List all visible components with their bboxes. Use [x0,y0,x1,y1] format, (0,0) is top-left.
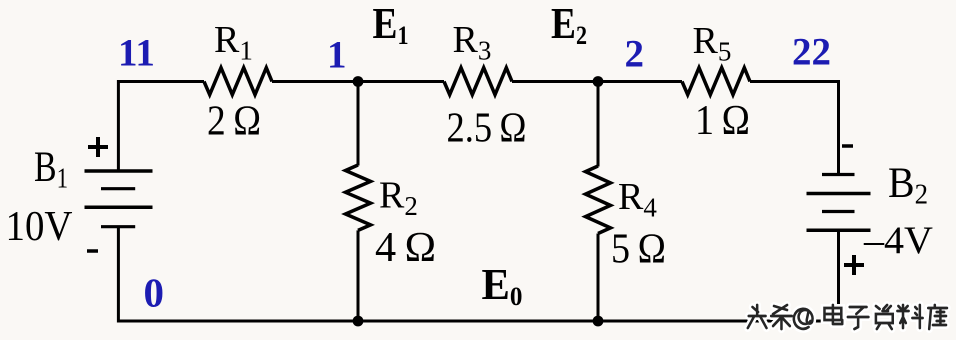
wire R5 to B2 minus terminal [750,82,839,176]
svg-text:4 Ω: 4 Ω [375,225,436,271]
resistor R2 zigzag [346,165,371,230]
wire R2 to node 0 rail [357,230,360,321]
battery B1 plates [85,171,153,227]
wire node 2 down to R4 [597,82,600,167]
wire R4 to node 0 rail [597,234,600,322]
plus sign B1 [88,137,108,157]
svg-text:1: 1 [327,34,347,77]
wire R1 to node 1 [272,80,358,83]
node 1 junction dot [353,76,364,87]
svg-text:2 Ω: 2 Ω [207,99,261,145]
minus sign B1 [87,249,98,253]
node 0 junction dot under R4 [593,316,604,327]
svg-text:2.5 Ω: 2.5 Ω [447,106,527,152]
wire B2 plus terminal down to bottom rail [837,230,840,321]
svg-text:10V: 10V [6,204,73,250]
battery B2 plates [807,175,871,231]
resistor R4 zigzag [586,166,611,234]
node 0 junction dot under R2 [353,316,364,327]
resistor R5 zigzag [682,68,750,95]
wire B1 plus terminal up to top-left corner and right to R1 [118,82,204,172]
resistor R1 zigzag [204,68,272,95]
wire node 2 to R5 [598,80,682,83]
svg-text:2: 2 [625,33,645,76]
wire R3 to node 2 [512,80,598,83]
plus sign B2 [844,255,864,275]
wire node 1 to R3 [358,80,444,83]
svg-text:–4V: –4V [863,218,933,262]
svg-text:11: 11 [118,32,155,75]
wire bottom rail R4 to B2 [598,320,839,323]
wire node 1 down to R2 [357,82,360,166]
svg-text:5 Ω: 5 Ω [611,227,666,273]
wire B1 minus terminal down to bottom rail [118,227,358,321]
minus sign B2 [842,144,853,148]
watermark toutiao at-dianzi ziliaoku [748,305,947,329]
wire bottom rail node 0 between R2 and R4 [358,320,598,323]
svg-text:1 Ω: 1 Ω [695,98,750,144]
svg-text:0: 0 [144,270,165,316]
node 2 junction dot [593,76,604,87]
svg-text:22: 22 [792,31,831,74]
resistor R3 zigzag [444,68,512,95]
